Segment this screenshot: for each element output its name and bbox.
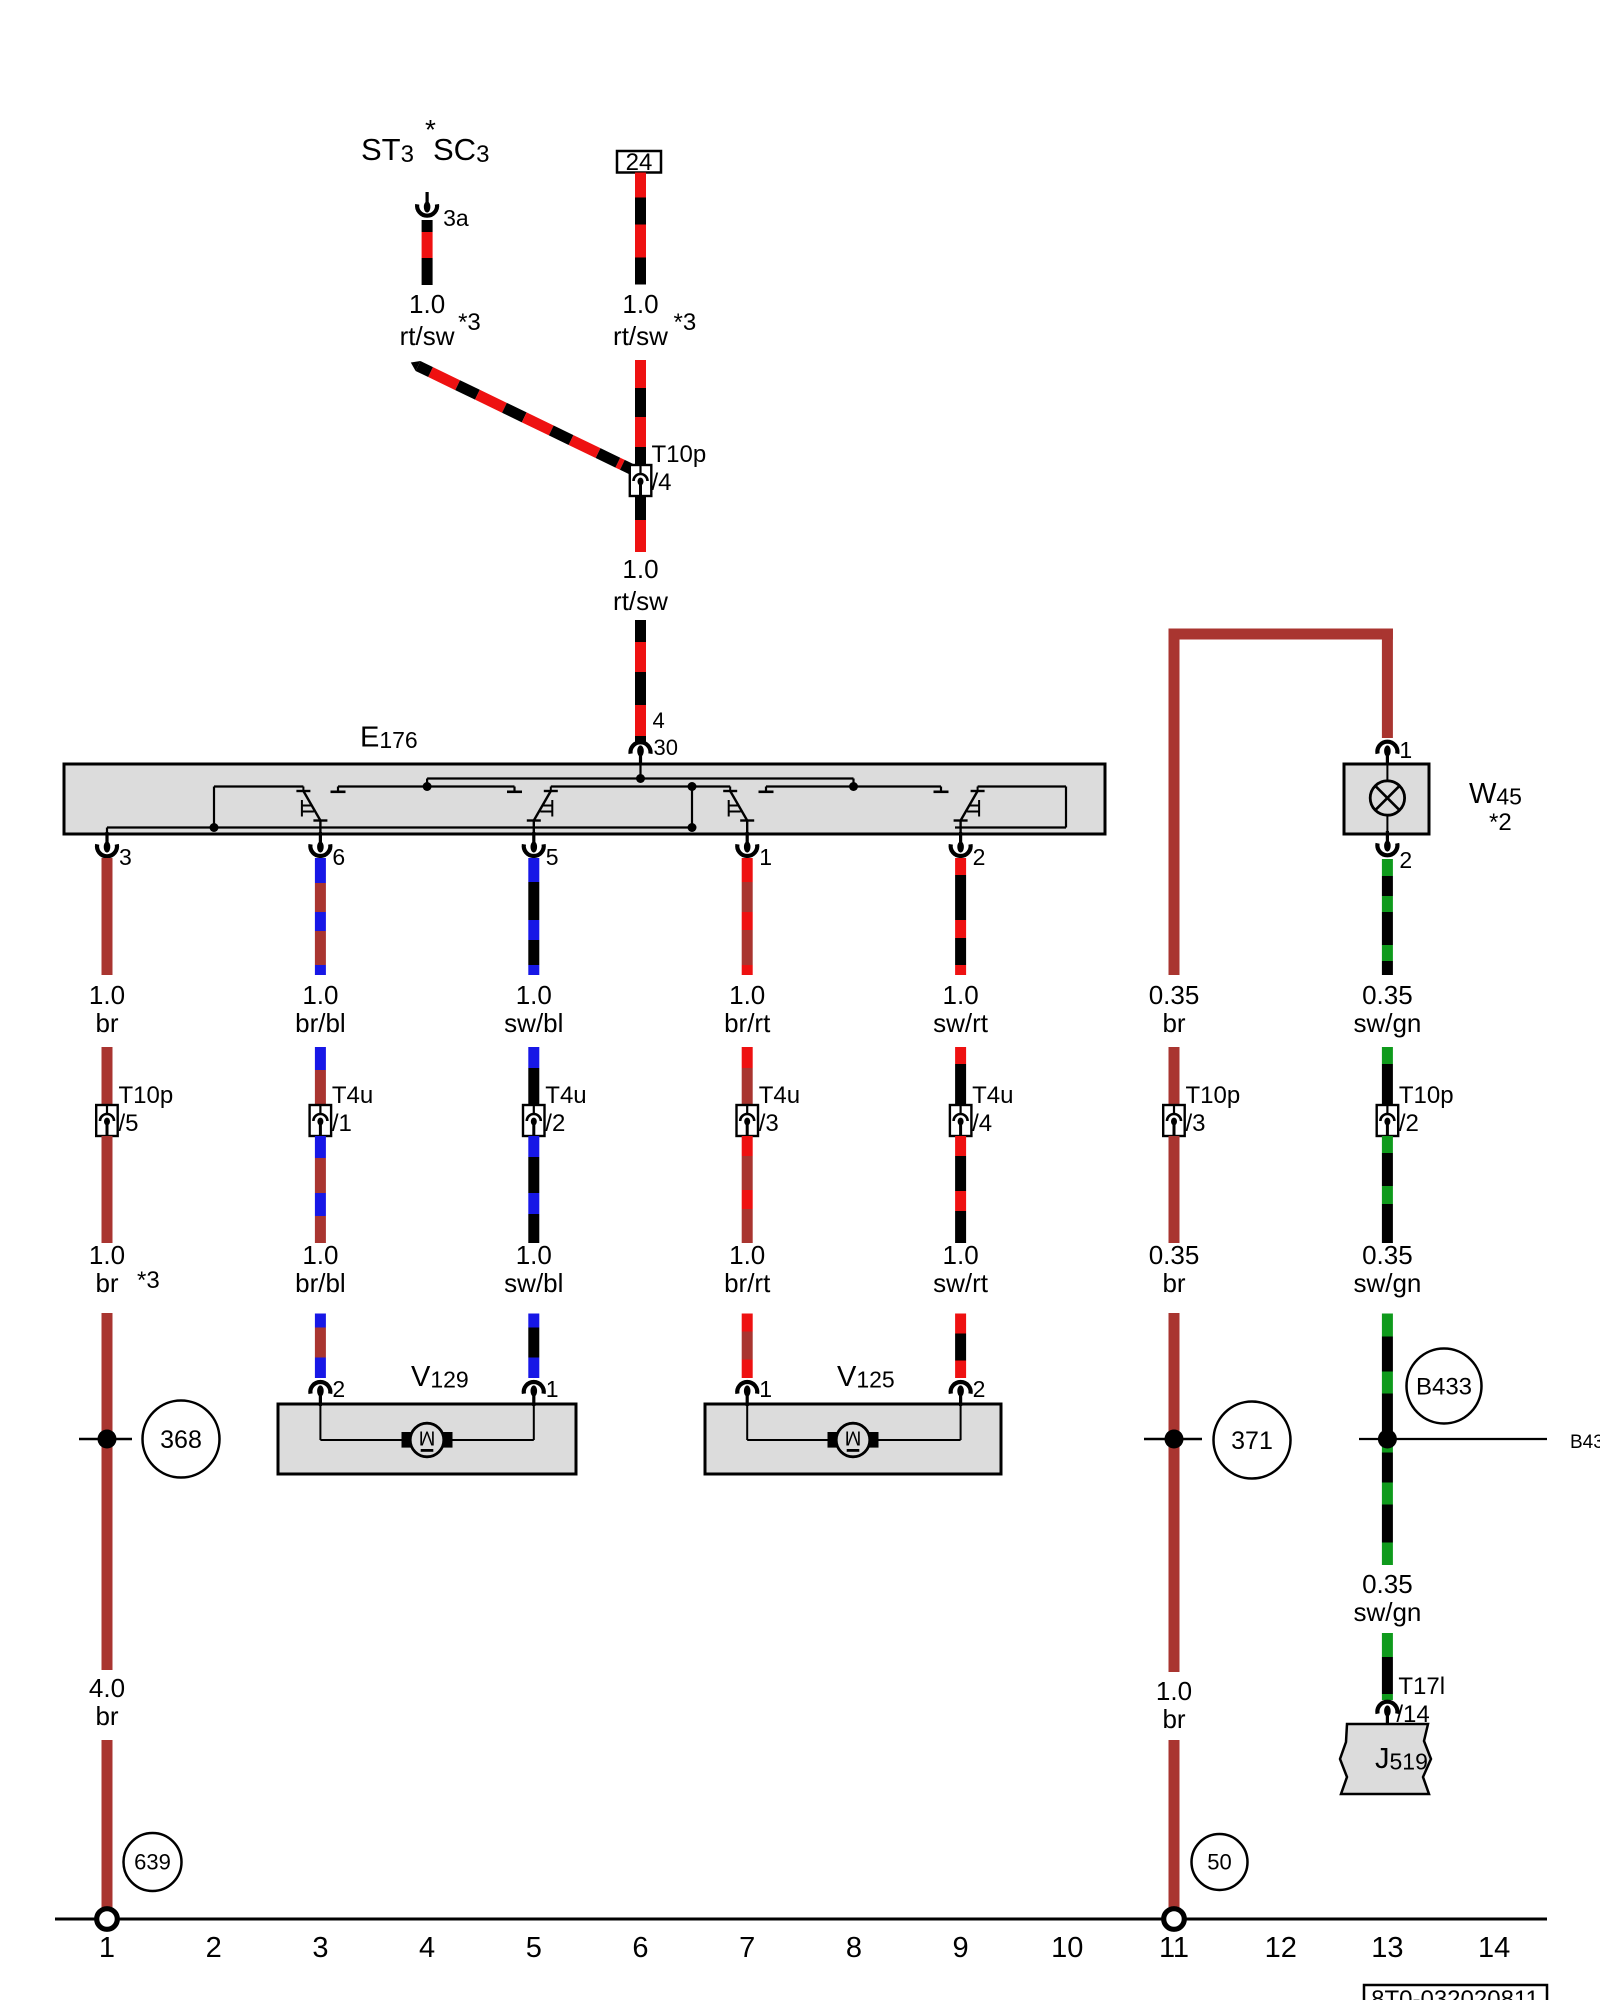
svg-text:T10p: T10p bbox=[1186, 1082, 1241, 1109]
svg-text:/3: /3 bbox=[1186, 1110, 1206, 1137]
svg-text:639: 639 bbox=[134, 1850, 171, 1875]
svg-text:sw/gn: sw/gn bbox=[1353, 1597, 1421, 1627]
svg-text:2: 2 bbox=[206, 1932, 222, 1964]
connector T10p/4 bbox=[630, 465, 652, 496]
svg-text:J519: J519 bbox=[1375, 1743, 1428, 1775]
svg-text:2: 2 bbox=[332, 1376, 345, 1402]
motor symbol M in V125 bbox=[746, 1404, 748, 1440]
svg-text:*3: *3 bbox=[458, 309, 481, 336]
svg-text:1.0: 1.0 bbox=[1156, 1676, 1192, 1706]
svg-text:br: br bbox=[95, 1701, 118, 1731]
svg-text:1.0: 1.0 bbox=[943, 1240, 979, 1270]
diagonal wire rt/sw from 3a branch to T10p/4 bbox=[408, 358, 635, 475]
svg-text:1: 1 bbox=[1399, 737, 1412, 763]
svg-text:/1: /1 bbox=[332, 1110, 352, 1137]
svg-text:rt/sw: rt/sw bbox=[613, 586, 668, 616]
switch unit E176 box bbox=[64, 764, 1105, 834]
svg-text:13: 13 bbox=[1371, 1932, 1403, 1964]
svg-text:sw/bl: sw/bl bbox=[504, 1268, 563, 1298]
wire rt/sw below T10p/4 bbox=[635, 496, 646, 520]
svg-text:*3: *3 bbox=[137, 1267, 160, 1294]
rail C with open contacts bbox=[766, 785, 941, 787]
connector T17l/14 bbox=[1386, 1715, 1389, 1726]
svg-text:14: 14 bbox=[1478, 1932, 1510, 1964]
svg-text:1: 1 bbox=[759, 1376, 772, 1402]
top rail to terminal 30 bbox=[426, 779, 428, 787]
svg-text:0.35: 0.35 bbox=[1149, 980, 1200, 1010]
svg-text:/4: /4 bbox=[652, 469, 672, 496]
svg-text:5: 5 bbox=[526, 1932, 542, 1964]
svg-text:5: 5 bbox=[546, 844, 559, 870]
svg-text:11: 11 bbox=[1159, 1932, 1189, 1964]
wire below connector T10p/2 bbox=[1382, 1136, 1393, 1153]
wire br 0.35 elbow to W45 bbox=[1169, 629, 1393, 640]
svg-text:2: 2 bbox=[973, 1376, 986, 1402]
wire below connector T4u/3 bbox=[742, 1136, 753, 1156]
wire into connector T4u/3 bbox=[742, 1047, 753, 1068]
svg-text:br: br bbox=[1162, 1704, 1185, 1734]
ground node 639 bbox=[97, 1909, 118, 1930]
svg-text:1.0: 1.0 bbox=[302, 1240, 338, 1270]
svg-text:0.35: 0.35 bbox=[1362, 1240, 1413, 1270]
ground node 50 bbox=[1164, 1909, 1185, 1930]
svg-text:371: 371 bbox=[1231, 1427, 1273, 1455]
svg-text:8: 8 bbox=[846, 1932, 862, 1964]
circle 50 bbox=[1192, 1834, 1248, 1890]
svg-text:24: 24 bbox=[626, 149, 653, 176]
svg-text:1.0: 1.0 bbox=[89, 1240, 125, 1270]
wire rt/sw col6 to T10p/4 bbox=[635, 360, 646, 388]
wire sw/bl to V129/1 bbox=[528, 1314, 539, 1328]
svg-text:1.0: 1.0 bbox=[622, 289, 658, 319]
svg-text:rt/sw: rt/sw bbox=[400, 321, 455, 351]
svg-text:B433: B433 bbox=[1416, 1373, 1472, 1400]
svg-text:6: 6 bbox=[632, 1932, 648, 1964]
wire below connector T4u/1 bbox=[315, 1136, 326, 1158]
svg-text:T4u: T4u bbox=[972, 1082, 1013, 1109]
wire br/rt (terminal 1) bbox=[742, 858, 753, 882]
svg-text:sw/rt: sw/rt bbox=[933, 1008, 989, 1038]
svg-text:2: 2 bbox=[1399, 847, 1412, 873]
svg-text:12: 12 bbox=[1265, 1932, 1297, 1964]
svg-text:1: 1 bbox=[99, 1932, 115, 1964]
circle 639 bbox=[124, 1833, 182, 1891]
wire into connector T4u/4 bbox=[955, 1047, 966, 1064]
svg-text:V129: V129 bbox=[411, 1361, 469, 1393]
svg-text:T4u: T4u bbox=[332, 1082, 373, 1109]
wire into connector T4u/2 bbox=[528, 1047, 539, 1068]
junction dot col1 bbox=[79, 1438, 132, 1441]
wire sw/gn col13 through B433 junction bbox=[1382, 1314, 1393, 1337]
svg-text:1.0: 1.0 bbox=[516, 980, 552, 1010]
svg-text:1.0: 1.0 bbox=[89, 980, 125, 1010]
svg-text:6: 6 bbox=[332, 844, 345, 870]
terminal cup V125/1 bbox=[746, 1395, 749, 1406]
svg-text:1.0: 1.0 bbox=[622, 554, 658, 584]
part number box bbox=[1364, 1985, 1547, 2000]
svg-text:br/rt: br/rt bbox=[724, 1268, 771, 1298]
svg-text:0.35: 0.35 bbox=[1362, 980, 1413, 1010]
svg-text:1: 1 bbox=[546, 1376, 559, 1402]
wire sw/rt to V125/2 bbox=[955, 1314, 966, 1334]
svg-text:sw/gn: sw/gn bbox=[1353, 1008, 1421, 1038]
svg-text:2: 2 bbox=[973, 844, 986, 870]
svg-text:0.35: 0.35 bbox=[1149, 1240, 1200, 1270]
wire br col1 to ground bbox=[102, 1740, 113, 1909]
svg-text:br: br bbox=[95, 1008, 118, 1038]
svg-text:M: M bbox=[419, 1427, 436, 1449]
svg-text:8T0-032020811: 8T0-032020811 bbox=[1371, 1986, 1539, 2000]
connector T4u/3 bbox=[737, 1105, 759, 1136]
svg-text:4.0: 4.0 bbox=[89, 1673, 125, 1703]
svg-text:10: 10 bbox=[1051, 1932, 1083, 1964]
control unit J519 box bbox=[1340, 1724, 1431, 1794]
switch contact (terminal 6) bbox=[302, 787, 304, 792]
svg-text:E176: E176 bbox=[360, 722, 418, 754]
svg-text:3a: 3a bbox=[443, 205, 469, 231]
wire below connector T10p/5 bbox=[102, 1136, 113, 1243]
svg-text:3: 3 bbox=[119, 844, 132, 870]
motor symbol M in V129 bbox=[319, 1404, 321, 1440]
svg-text:7: 7 bbox=[739, 1932, 755, 1964]
wire br col11 to ground bbox=[1169, 1740, 1180, 1909]
wire br col1 to junction 368 bbox=[102, 1313, 113, 1670]
window motor V129 box bbox=[278, 1404, 576, 1474]
svg-text:br/bl: br/bl bbox=[295, 1008, 346, 1038]
junction dot col11 bbox=[1144, 1438, 1202, 1441]
svg-text:br/bl: br/bl bbox=[295, 1268, 346, 1298]
wire into connector T10p/3 bbox=[1169, 1047, 1180, 1105]
wire sw/gn to T17l bbox=[1382, 1633, 1393, 1657]
wire br/bl to V129/2 bbox=[315, 1314, 326, 1328]
svg-text:/5: /5 bbox=[119, 1110, 139, 1137]
svg-text:br: br bbox=[1162, 1268, 1185, 1298]
svg-text:M: M bbox=[845, 1427, 862, 1449]
connector T10p/3 bbox=[1163, 1105, 1185, 1136]
circle B433 bbox=[1407, 1349, 1482, 1424]
fuse terminal 3a bbox=[426, 192, 429, 203]
open contact right of switch 6 bbox=[338, 785, 515, 787]
terminal cup W45/1 bbox=[1386, 755, 1389, 766]
wire below connector T4u/2 bbox=[528, 1136, 539, 1157]
wire below connector T4u/4 bbox=[955, 1136, 966, 1156]
svg-text:1: 1 bbox=[759, 844, 772, 870]
terminal cup V129/2 bbox=[319, 1395, 322, 1406]
svg-text:1.0: 1.0 bbox=[302, 980, 338, 1010]
wire br col11 through junction 371 bbox=[1169, 1313, 1180, 1672]
svg-text:T4u: T4u bbox=[759, 1082, 800, 1109]
E176 internal wiring bbox=[106, 828, 108, 835]
wire sw/bl (terminal 5) bbox=[528, 858, 539, 882]
connector T4u/1 bbox=[310, 1105, 332, 1136]
lamp symbol W45 bbox=[1386, 764, 1388, 782]
svg-text:30: 30 bbox=[654, 735, 678, 760]
ground bus line bbox=[55, 1918, 1547, 1921]
wire rt/sw into E176 terminal 30 bbox=[635, 620, 646, 642]
wire below connector T10p/3 bbox=[1169, 1136, 1180, 1243]
svg-text:rt/sw: rt/sw bbox=[613, 321, 668, 351]
circle 371 bbox=[1214, 1402, 1291, 1479]
svg-text:368: 368 bbox=[160, 1426, 202, 1454]
node B433 junction bbox=[1359, 1438, 1547, 1440]
svg-text:4: 4 bbox=[653, 708, 665, 733]
svg-text:V125: V125 bbox=[837, 1361, 895, 1393]
svg-text:/4: /4 bbox=[972, 1110, 992, 1137]
E176 bottom terminal cups bbox=[105, 832, 108, 843]
svg-text:T4u: T4u bbox=[545, 1082, 586, 1109]
terminal cup V125/2 bbox=[959, 1395, 962, 1406]
inner loop right of switch 2 bbox=[978, 785, 1066, 787]
rail between switch 5 and switch 1 bbox=[551, 785, 730, 787]
svg-text:br: br bbox=[95, 1268, 118, 1298]
terminal cup 30 on E176 bbox=[639, 755, 642, 766]
svg-text:T10p: T10p bbox=[1399, 1082, 1454, 1109]
svg-text:1.0: 1.0 bbox=[516, 1240, 552, 1270]
wire into connector T10p/2 bbox=[1382, 1047, 1393, 1064]
svg-text:*3: *3 bbox=[674, 309, 697, 336]
connector T10p/5 bbox=[96, 1105, 118, 1136]
terminal cup W45/2 bbox=[1386, 831, 1389, 842]
svg-text:/2: /2 bbox=[1399, 1110, 1419, 1137]
terminal cup V129/1 bbox=[532, 1395, 535, 1406]
wire br/rt to V125/1 bbox=[742, 1314, 753, 1332]
wire br (terminal 3) bbox=[102, 858, 113, 975]
wire into connector T10p/5 bbox=[102, 1047, 113, 1105]
svg-text:T17l: T17l bbox=[1398, 1673, 1445, 1700]
svg-text:/3: /3 bbox=[759, 1110, 779, 1137]
window motor V125 box bbox=[705, 1404, 1001, 1474]
connector T4u/4 bbox=[950, 1105, 972, 1136]
wire br/bl (terminal 6) bbox=[315, 858, 326, 883]
svg-text:1.0: 1.0 bbox=[409, 289, 445, 319]
svg-text:1.0: 1.0 bbox=[943, 980, 979, 1010]
svg-text:4: 4 bbox=[419, 1932, 435, 1964]
bulb W45 box bbox=[1344, 764, 1429, 834]
svg-text:sw/gn: sw/gn bbox=[1353, 1268, 1421, 1298]
switch contact (terminal 2) bbox=[977, 787, 979, 792]
svg-text:0.35: 0.35 bbox=[1362, 1569, 1413, 1599]
svg-text:W45: W45 bbox=[1469, 778, 1522, 810]
svg-text:T10p: T10p bbox=[652, 441, 707, 468]
svg-text:br: br bbox=[1162, 1008, 1185, 1038]
circle 368 bbox=[143, 1401, 220, 1478]
connector T10p/2 bbox=[1377, 1105, 1399, 1136]
svg-text:1.0: 1.0 bbox=[729, 980, 765, 1010]
switch contact (terminal 1) bbox=[729, 787, 731, 792]
svg-text:1.0: 1.0 bbox=[729, 1240, 765, 1270]
svg-text:50: 50 bbox=[1207, 1850, 1231, 1875]
svg-text:sw/rt: sw/rt bbox=[933, 1268, 989, 1298]
svg-text:*2: *2 bbox=[1489, 809, 1512, 836]
connector T4u/2 bbox=[523, 1105, 545, 1136]
wire rt/sw from 3a bbox=[422, 220, 433, 232]
wire rt/sw below fuse 24 bbox=[635, 173, 646, 198]
svg-text:9: 9 bbox=[953, 1932, 969, 1964]
wire into connector T4u/1 bbox=[315, 1047, 326, 1070]
wire sw/rt (terminal 2) bbox=[955, 858, 966, 875]
svg-text:br/rt: br/rt bbox=[724, 1008, 771, 1038]
svg-text:B433: B433 bbox=[1570, 1432, 1600, 1453]
wire sw/gn below W45 bbox=[1382, 859, 1393, 876]
svg-text:/2: /2 bbox=[545, 1110, 565, 1137]
fuse box 24 bbox=[617, 151, 661, 173]
switch contact (terminal 5) bbox=[550, 787, 552, 792]
svg-text:3: 3 bbox=[312, 1932, 328, 1964]
svg-text:T10p: T10p bbox=[119, 1082, 174, 1109]
svg-text:sw/bl: sw/bl bbox=[504, 1008, 563, 1038]
